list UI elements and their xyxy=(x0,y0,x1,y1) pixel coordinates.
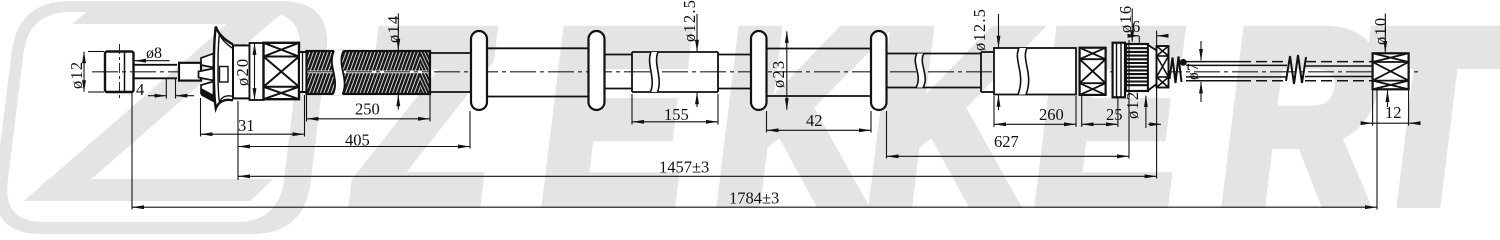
dim 25 xyxy=(1082,96,1161,127)
svg-text:1457±3: 1457±3 xyxy=(659,158,709,177)
watermark zekkert logo xyxy=(0,1,333,234)
svg-text:260: 260 xyxy=(1039,105,1064,124)
svg-text:155: 155 xyxy=(664,105,689,124)
tube D wavy break xyxy=(650,52,660,92)
threaded rod left part xyxy=(1186,62,1287,81)
grommet bell xyxy=(214,27,233,109)
svg-text:ø23: ø23 xyxy=(769,60,788,88)
threaded rod right part xyxy=(1305,62,1373,81)
tube D 155 xyxy=(632,52,718,92)
stop capsule 3 xyxy=(751,31,767,110)
svg-text:ø20: ø20 xyxy=(233,58,252,86)
collet prongs xyxy=(199,54,214,98)
dim 260 xyxy=(994,96,1076,127)
end x-box 4 xyxy=(1373,53,1409,89)
spring symbol 2 xyxy=(1286,55,1306,84)
plain tube A xyxy=(430,53,471,92)
d20 collar xyxy=(250,43,264,100)
boot x-box 2 xyxy=(1080,48,1106,95)
housing tube F xyxy=(767,49,872,97)
tube G wavy break xyxy=(915,54,925,88)
dim 12 xyxy=(1361,91,1420,126)
coil spring symbol xyxy=(1170,57,1182,84)
d20 cylinder xyxy=(233,45,250,98)
stop capsule 2 xyxy=(589,31,605,110)
dim 31 xyxy=(201,95,305,137)
svg-text:250: 250 xyxy=(355,100,380,119)
svg-text:405: 405 xyxy=(345,131,370,150)
svg-text:4: 4 xyxy=(136,80,144,99)
thin tube G xyxy=(887,54,982,88)
inner cable left xyxy=(134,65,178,79)
dim d20 xyxy=(254,43,256,99)
dim d12 left xyxy=(84,52,104,93)
thin tube E xyxy=(718,52,751,92)
dim 250 xyxy=(307,95,431,122)
dim 42 xyxy=(767,111,872,133)
svg-text:6: 6 xyxy=(1132,17,1140,36)
thin tube C xyxy=(605,55,633,89)
svg-text:25: 25 xyxy=(1106,105,1123,124)
svg-text:12: 12 xyxy=(1385,103,1402,122)
tube H wavy break xyxy=(1017,48,1028,95)
svg-text:ø8: ø8 xyxy=(146,45,162,62)
adjuster flange xyxy=(1113,43,1125,98)
collet dark chevron xyxy=(201,88,214,103)
stop capsule 4 xyxy=(871,31,887,110)
svg-text:ø10: ø10 xyxy=(1371,17,1390,45)
drum cone xyxy=(1148,45,1157,91)
svg-text:627: 627 xyxy=(994,132,1019,151)
dim 627 xyxy=(887,40,1130,159)
end x-box 3 xyxy=(1157,46,1169,88)
coil end ball xyxy=(1180,59,1187,66)
boot x-box 1 xyxy=(264,43,300,99)
conduit connector xyxy=(299,52,307,92)
dim 405 xyxy=(238,101,470,180)
tube H 260 xyxy=(994,48,1076,95)
svg-text:ø7: ø7 xyxy=(1185,62,1202,80)
svg-text:1784±3: 1784±3 xyxy=(729,189,779,208)
svg-text:42: 42 xyxy=(806,111,823,130)
conduit hatched sheath xyxy=(307,51,431,94)
crimp sleeve xyxy=(179,63,201,81)
housing tube B xyxy=(487,48,589,96)
watermark zekkert text xyxy=(341,0,1500,240)
centerline xyxy=(92,71,1421,73)
svg-text:ø12.5: ø12.5 xyxy=(970,8,989,51)
bell hub xyxy=(220,67,229,83)
adjuster drum xyxy=(1126,44,1148,91)
dim 155 xyxy=(632,94,718,125)
dim 1784 xyxy=(132,90,1377,210)
dim 1457 xyxy=(239,31,1157,179)
collar tube H xyxy=(981,52,994,92)
svg-text:ø12: ø12 xyxy=(67,61,86,89)
svg-text:31: 31 xyxy=(238,116,255,135)
conduit wavy break xyxy=(332,50,345,95)
stop capsule 1 xyxy=(471,31,487,110)
svg-text:ø12: ø12 xyxy=(1123,91,1142,119)
barrel nipple xyxy=(105,44,134,100)
dim d23 xyxy=(786,31,788,109)
svg-text:ø12.5: ø12.5 xyxy=(680,0,699,42)
svg-text:ø14: ø14 xyxy=(384,15,403,43)
